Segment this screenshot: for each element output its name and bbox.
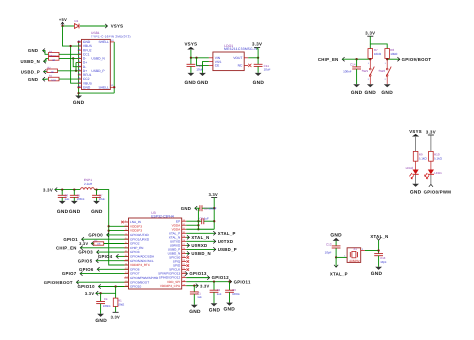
svg-text:USBD_N: USBD_N xyxy=(21,59,40,64)
svg-text:SW1: SW1 xyxy=(362,69,369,73)
svg-text:0R: 0R xyxy=(51,71,54,74)
svg-text:GND: GND xyxy=(253,80,265,86)
svg-text:XTAL_N: XTAL_N xyxy=(191,235,209,240)
svg-text:100nF: 100nF xyxy=(77,197,85,201)
svg-text:3.3V: 3.3V xyxy=(365,31,375,36)
svg-text:GPIO13: GPIO13 xyxy=(189,271,207,276)
svg-text:1uF: 1uF xyxy=(204,217,209,221)
svg-text:1uF: 1uF xyxy=(65,197,70,201)
svg-text:0R: 0R xyxy=(52,59,55,62)
svg-text:CHIP_EN: CHIP_EN xyxy=(56,245,77,250)
svg-text:100nF: 100nF xyxy=(103,304,111,308)
svg-text:GPIO11: GPIO11 xyxy=(234,279,251,284)
svg-text:100nF: 100nF xyxy=(208,206,216,210)
svg-text:1uF: 1uF xyxy=(197,295,202,299)
svg-text:GND: GND xyxy=(185,80,197,86)
svg-text:3.3V: 3.3V xyxy=(79,242,88,246)
svg-text:CHIP_EN: CHIP_EN xyxy=(318,57,339,62)
svg-text:USBD_P: USBD_P xyxy=(21,69,40,74)
svg-text:5.1kΩ: 5.1kΩ xyxy=(419,157,428,161)
svg-text:GND: GND xyxy=(351,90,363,96)
svg-text:GPIO0: GPIO0 xyxy=(88,233,103,238)
svg-text:GPIO7: GPIO7 xyxy=(62,271,77,276)
svg-text:5.1K: 5.1K xyxy=(51,79,56,82)
svg-text:D1: D1 xyxy=(75,19,79,23)
svg-text:3.3V: 3.3V xyxy=(200,283,209,288)
svg-text:XTAL_N: XTAL_N xyxy=(370,234,388,239)
svg-text:5.1kΩ: 5.1kΩ xyxy=(434,157,443,161)
svg-text:ESP32-C3FH4: ESP32-C3FH4 xyxy=(151,214,174,218)
svg-text:GPIO9/BOOT: GPIO9/BOOT xyxy=(402,57,432,62)
svg-text:GND: GND xyxy=(365,90,377,96)
svg-text:GND: GND xyxy=(83,85,91,89)
svg-text:GPIO1: GPIO1 xyxy=(63,237,78,242)
svg-text:GPIO4: GPIO4 xyxy=(98,254,113,259)
svg-text:GPIO9/BOOT: GPIO9/BOOT xyxy=(44,280,73,285)
svg-text:XTAL_P: XTAL_P xyxy=(330,271,348,276)
svg-text:VSYS: VSYS xyxy=(111,24,124,29)
svg-text:CE: CE xyxy=(215,64,220,68)
svg-text:VOUT: VOUT xyxy=(233,56,242,60)
svg-text:SHELL: SHELL xyxy=(98,40,109,44)
svg-text:LED2: LED2 xyxy=(406,166,414,170)
svg-text:10kΩ: 10kΩ xyxy=(374,52,382,56)
svg-text:GPIO10: GPIO10 xyxy=(130,285,141,289)
svg-text:GND: GND xyxy=(197,80,209,86)
svg-text:10uF: 10uF xyxy=(264,67,271,71)
svg-text:GPIO10: GPIO10 xyxy=(77,284,95,289)
svg-text:USBD_P: USBD_P xyxy=(91,69,105,73)
svg-text:GND: GND xyxy=(209,308,221,314)
svg-text:10kΩ: 10kΩ xyxy=(390,52,398,56)
svg-text:U0TXD: U0TXD xyxy=(218,239,234,244)
svg-text:3.3V: 3.3V xyxy=(43,187,53,192)
svg-text:100nF: 100nF xyxy=(343,69,352,73)
svg-text:2.2uH: 2.2uH xyxy=(84,182,92,186)
svg-text:10uF: 10uF xyxy=(99,197,106,201)
svg-text:10kΩ: 10kΩ xyxy=(118,303,125,307)
svg-text:3.3V: 3.3V xyxy=(111,314,120,319)
svg-text:VSYS: VSYS xyxy=(184,41,197,46)
svg-text:C12: C12 xyxy=(326,242,332,246)
svg-text:GPIO3: GPIO3 xyxy=(78,250,93,255)
svg-text:3.3V: 3.3V xyxy=(426,129,436,134)
svg-text:USBD_N: USBD_N xyxy=(91,57,105,61)
svg-text:C4: C4 xyxy=(104,297,108,301)
svg-text:GND: GND xyxy=(28,77,38,82)
svg-text:GND: GND xyxy=(73,100,85,106)
svg-text:U0RXD: U0RXD xyxy=(191,243,207,248)
svg-text:VSYS: VSYS xyxy=(409,129,422,134)
svg-text:TYPE-C-16PIN 2MD(073): TYPE-C-16PIN 2MD(073) xyxy=(91,34,131,38)
svg-text:3.3V: 3.3V xyxy=(85,291,94,296)
svg-text:GND: GND xyxy=(330,232,342,238)
svg-text:GND: GND xyxy=(371,271,383,277)
svg-text:GPIO12: GPIO12 xyxy=(212,275,230,280)
svg-text:VDD3P3_CPU: VDD3P3_CPU xyxy=(160,284,180,288)
svg-text:C14: C14 xyxy=(350,62,356,66)
svg-text:GND: GND xyxy=(181,206,191,211)
svg-text:LED1: LED1 xyxy=(434,171,442,175)
svg-text:GND: GND xyxy=(95,318,107,324)
svg-text:3.3V: 3.3V xyxy=(209,192,218,197)
svg-text:10pF: 10pF xyxy=(380,260,387,264)
svg-text:GND: GND xyxy=(410,189,422,195)
svg-text:X1: X1 xyxy=(353,247,357,251)
svg-text:USBD_N: USBD_N xyxy=(191,251,210,256)
svg-text:GPIO5: GPIO5 xyxy=(78,258,93,263)
svg-text:GPIO6: GPIO6 xyxy=(79,267,94,272)
svg-text:GND: GND xyxy=(69,209,81,215)
svg-text:SW2: SW2 xyxy=(378,69,385,73)
svg-text:ME6211C33M5G-N: ME6211C33M5G-N xyxy=(224,47,257,51)
svg-text:GND: GND xyxy=(28,48,38,53)
svg-text:XTAL_P: XTAL_P xyxy=(218,231,236,236)
svg-text:GND: GND xyxy=(189,309,201,315)
svg-text:GND: GND xyxy=(57,209,69,215)
svg-text:+5V: +5V xyxy=(59,17,67,22)
svg-text:GPIO8/PWM: GPIO8/PWM xyxy=(424,189,452,194)
svg-text:USBD_P: USBD_P xyxy=(218,247,237,252)
svg-text:10pF: 10pF xyxy=(325,251,332,255)
svg-text:1uF: 1uF xyxy=(217,292,222,296)
svg-text:NC: NC xyxy=(238,64,243,68)
svg-text:100nF: 100nF xyxy=(232,292,240,296)
svg-text:10uF: 10uF xyxy=(196,67,203,71)
svg-text:SHELL: SHELL xyxy=(98,85,109,89)
svg-text:GND: GND xyxy=(91,209,103,215)
svg-text:GND: GND xyxy=(224,307,236,313)
svg-text:40MHz: 40MHz xyxy=(349,259,360,263)
svg-text:GND: GND xyxy=(381,90,393,96)
svg-text:3.3V: 3.3V xyxy=(252,41,262,46)
